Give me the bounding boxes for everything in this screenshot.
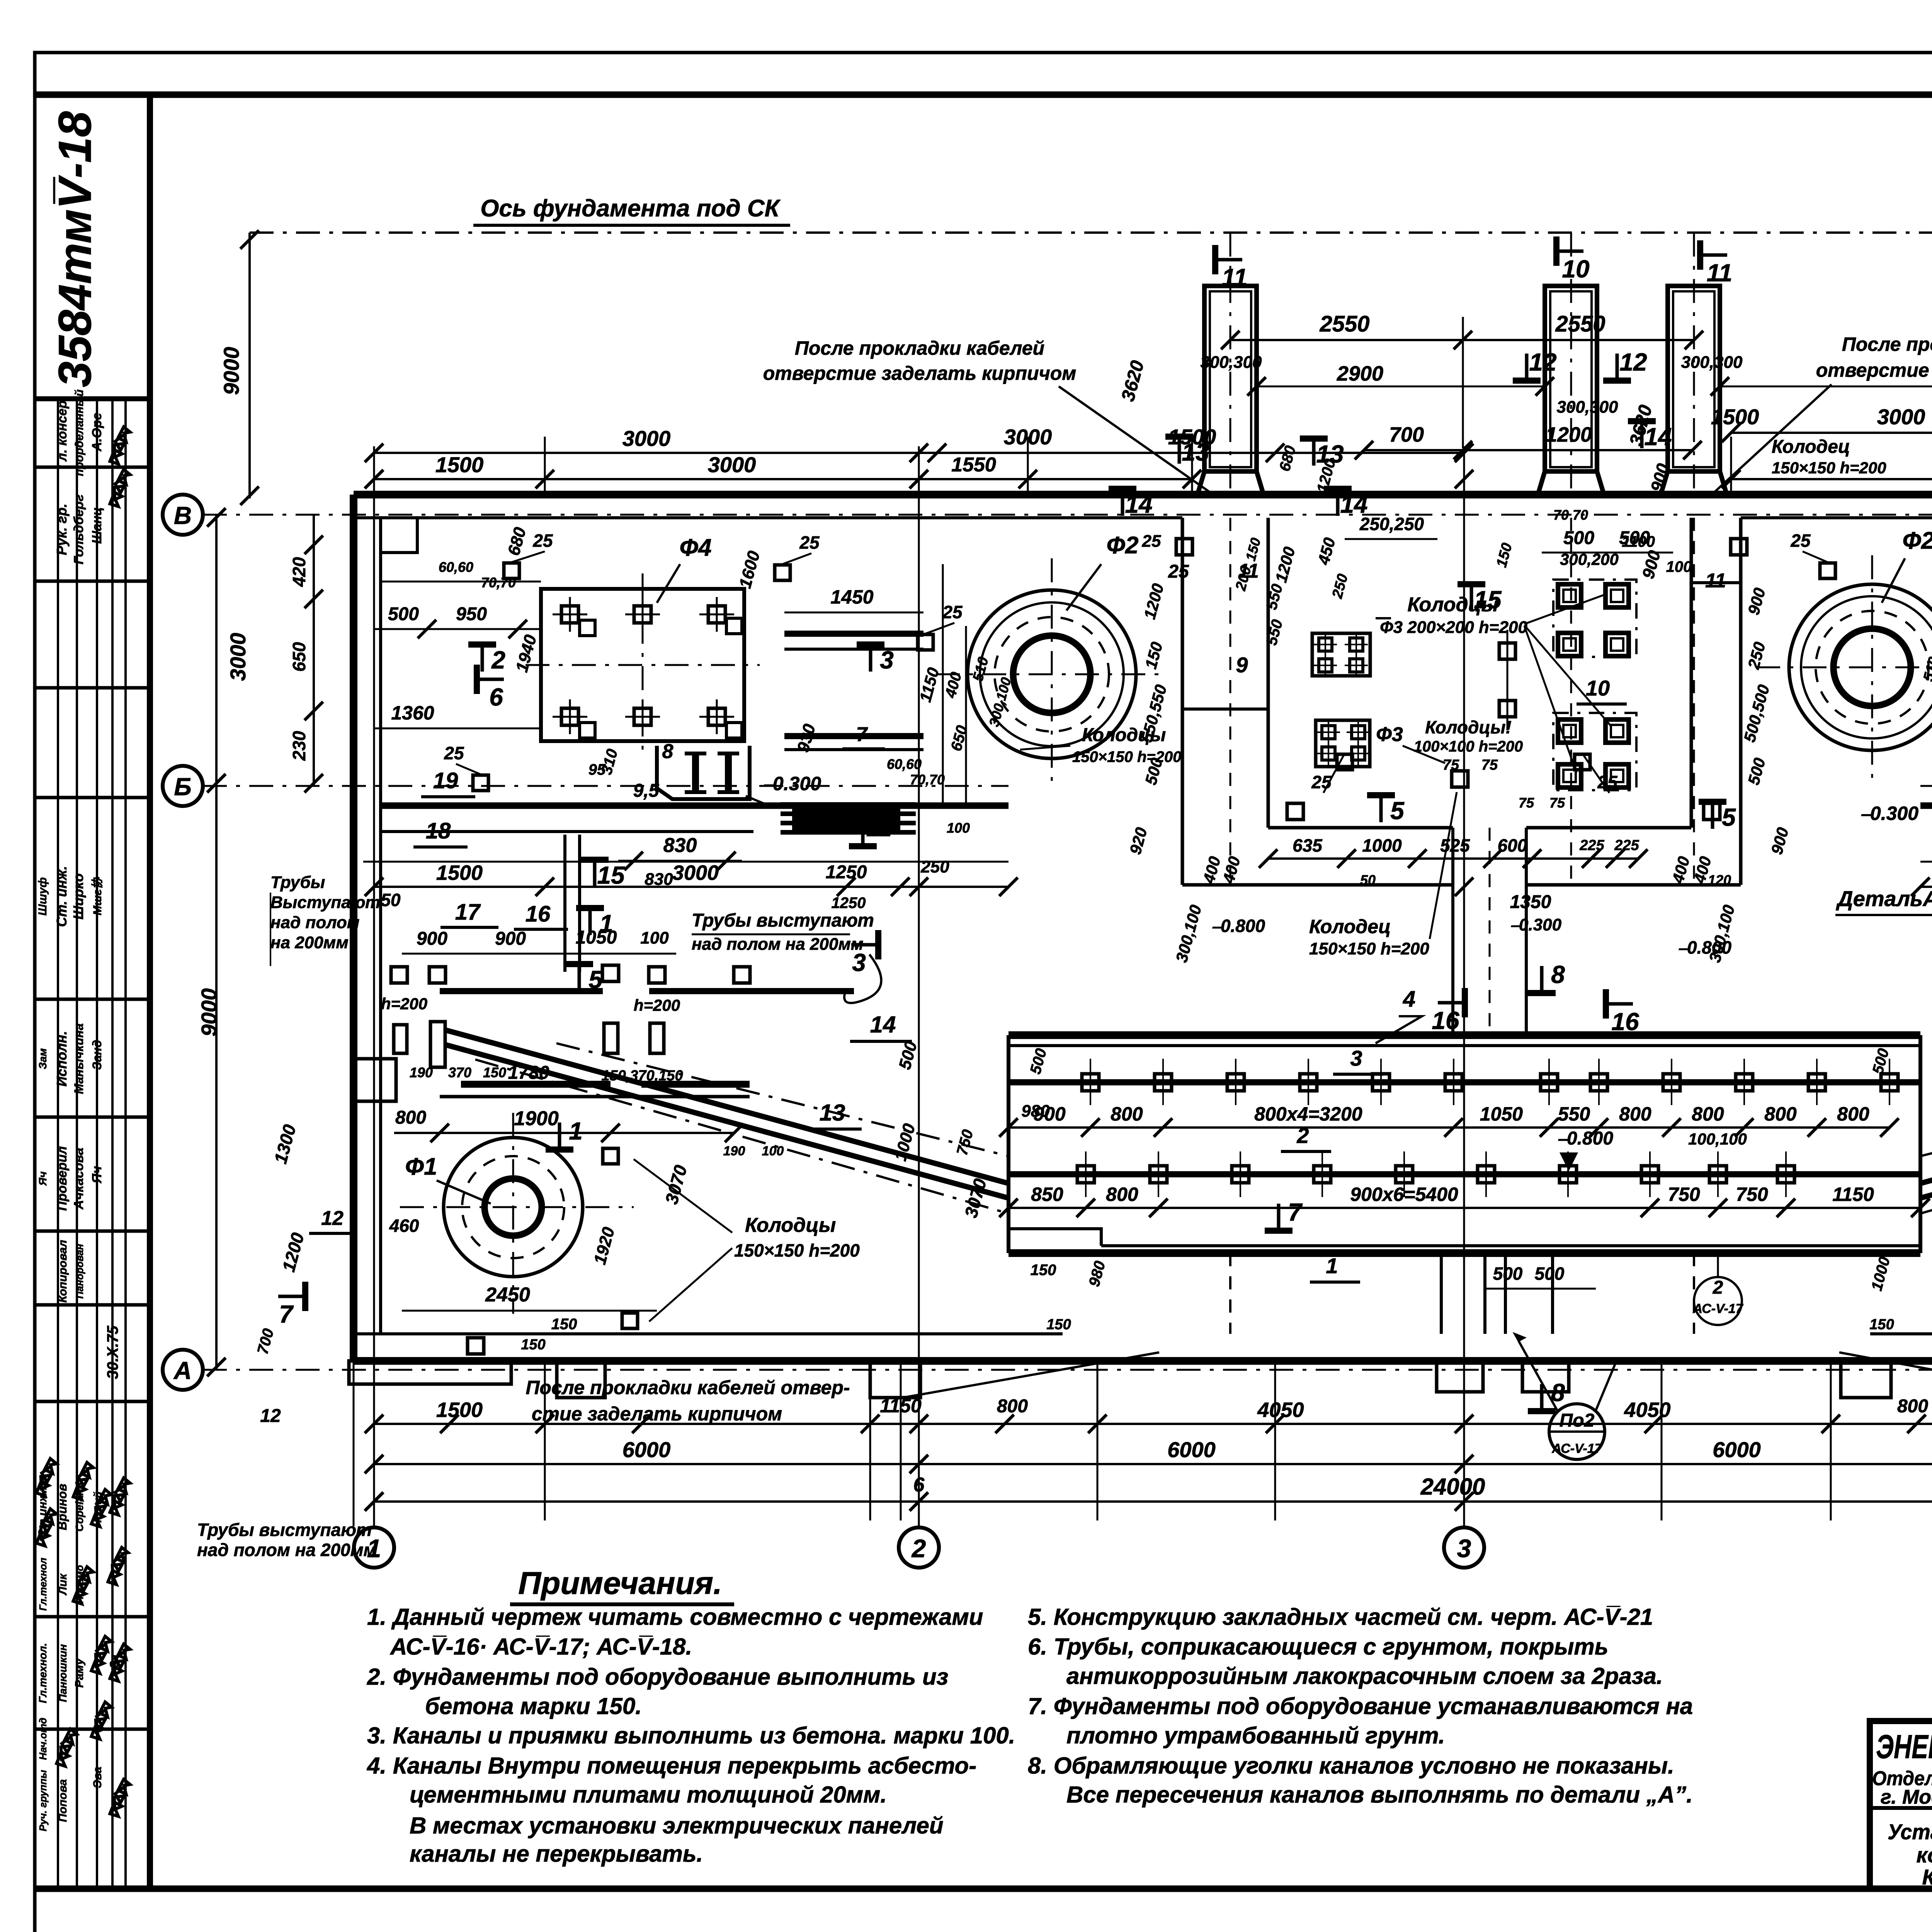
svg-text:6. Трубы, соприкасающиеся с г: 6. Трубы, соприкасающиеся с грунтом, пок…	[1028, 1634, 1608, 1660]
svg-text:АС-V̅-16· АС-V̅-17; АС-V̅-18.: АС-V̅-16· АС-V̅-17; АС-V̅-18.	[389, 1634, 692, 1660]
svg-text:1050: 1050	[1480, 1103, 1523, 1125]
wall corner notches	[381, 518, 417, 553]
svg-text:8: 8	[662, 740, 673, 763]
band bottom lines	[1101, 1244, 1920, 1247]
svg-text:Юрий: Юрий	[92, 1492, 104, 1523]
svg-text:3000: 3000	[672, 861, 719, 884]
svg-text:9: 9	[1236, 653, 1248, 677]
svg-text:460: 460	[389, 1216, 419, 1236]
svg-text:2: 2	[1296, 1123, 1309, 1148]
svg-text:250: 250	[920, 857, 949, 876]
svg-text:1500: 1500	[436, 861, 483, 884]
svg-text:3000: 3000	[708, 452, 756, 477]
svg-text:50: 50	[381, 890, 401, 910]
svg-text:150×150 h=200: 150×150 h=200	[1772, 459, 1886, 477]
svg-text:550: 550	[1558, 1103, 1590, 1125]
svg-text:25: 25	[1790, 531, 1811, 551]
svg-text:900: 900	[417, 929, 447, 949]
svg-text:12: 12	[1619, 348, 1647, 376]
svg-text:⎯0.300: ⎯0.300	[1861, 803, 1918, 824]
svg-text:800: 800	[1692, 1103, 1724, 1125]
svg-text:После прокладки кабелей: После прокладки кабелей	[795, 337, 1044, 359]
svg-text:800: 800	[997, 1396, 1028, 1417]
svg-text:3000: 3000	[622, 426, 671, 451]
svg-text:2550: 2550	[1555, 311, 1605, 337]
svg-text:300,200: 300,200	[1560, 550, 1619, 568]
band bolt row 2	[1009, 1171, 1920, 1177]
svg-text:500: 500	[388, 604, 419, 624]
svg-text:12: 12	[321, 1207, 344, 1230]
svg-text:АС-V-17: АС-V-17	[1692, 1301, 1743, 1316]
svg-text:500: 500	[1563, 528, 1594, 548]
svg-text:1250: 1250	[826, 862, 867, 883]
central pit walls	[1181, 518, 1184, 885]
svg-text:3000: 3000	[226, 633, 250, 681]
svg-text:150: 150	[1046, 1316, 1071, 1333]
bottom wall footing pads	[349, 1361, 511, 1384]
svg-text:стие заделать кирпичом: стие заделать кирпичом	[532, 1403, 782, 1425]
svg-text:цементными плитами толщиной: цементными плитами толщиной 20мм.	[410, 1782, 887, 1808]
svg-text:Выступают: Выступают	[270, 893, 380, 912]
svg-text:14: 14	[1125, 490, 1152, 518]
svg-text:на 200мм: на 200мм	[270, 933, 349, 952]
svg-text:5. Конструкцию закладных час: 5. Конструкцию закладных частей см. черт…	[1028, 1604, 1653, 1630]
svg-text:250,250: 250,250	[1359, 514, 1424, 534]
svg-text:Эва: Эва	[91, 1767, 104, 1788]
svg-text:11: 11	[1705, 570, 1726, 592]
svg-text:1: 1	[599, 910, 613, 937]
central channel band	[1009, 1031, 1920, 1039]
wing mid dim rows left	[374, 886, 1009, 888]
trench wells row left	[391, 967, 407, 983]
svg-text:Исполн.: Исполн.	[54, 1031, 70, 1087]
svg-text:над полом на 200мм: над полом на 200мм	[692, 935, 863, 954]
top dimension row 2	[374, 478, 1192, 480]
stamp rows	[35, 466, 150, 469]
svg-text:25: 25	[799, 532, 820, 553]
svg-text:5: 5	[1722, 803, 1736, 831]
svg-text:Ширко: Ширко	[70, 873, 86, 919]
svg-text:7. Фундаменты под оборудован: 7. Фундаменты под оборудование устанавли…	[1028, 1693, 1693, 1719]
bench detail left with I-beams	[657, 746, 750, 799]
svg-text:25: 25	[532, 531, 553, 551]
svg-text:800: 800	[1764, 1103, 1797, 1125]
svg-text:Гл.технол.: Гл.технол.	[37, 1643, 49, 1703]
tower axis dash-dot lines	[1230, 233, 1231, 498]
foundation circle F2 left	[968, 590, 1136, 759]
svg-text:над полом: над полом	[270, 913, 359, 932]
svg-text:120: 120	[1708, 872, 1731, 888]
svg-text:7: 7	[1288, 1198, 1303, 1226]
svg-text:420: 420	[289, 557, 309, 587]
svg-text:100,100: 100,100	[1688, 1130, 1747, 1148]
svg-text:25: 25	[1168, 561, 1189, 582]
markers around wings	[581, 857, 609, 863]
svg-text:1500: 1500	[435, 452, 484, 477]
svg-text:13: 13	[820, 1100, 845, 1126]
extra wing horizontal dim lines left	[381, 581, 541, 583]
svg-text:А: А	[173, 1357, 192, 1384]
svg-text:Ф2: Ф2	[1107, 532, 1139, 559]
svg-text:h=200: h=200	[634, 996, 680, 1014]
svg-text:1000: 1000	[1362, 835, 1402, 855]
svg-text:70,70: 70,70	[910, 772, 945, 787]
svg-text:3: 3	[1457, 1534, 1471, 1563]
band dim row 1	[1009, 1126, 1889, 1129]
svg-text:850: 850	[1031, 1184, 1063, 1205]
svg-text:900х6=5400: 900х6=5400	[1350, 1184, 1458, 1205]
svg-text:ДетальА”: ДетальА”	[1836, 886, 1932, 911]
svg-text:После прокладки кабелей отв: После прокладки кабелей отвер-	[526, 1377, 850, 1398]
svg-text:150×150 h=200: 150×150 h=200	[734, 1240, 860, 1260]
svg-text:800: 800	[1106, 1184, 1138, 1205]
svg-text:г. Москва: г. Москва	[1881, 1786, 1932, 1808]
svg-text:Панюшкин: Панюшкин	[57, 1644, 69, 1702]
svg-text:Шшуф: Шшуф	[36, 877, 49, 915]
svg-text:1: 1	[1326, 1253, 1338, 1278]
svg-text:60,60: 60,60	[439, 559, 473, 575]
hatch strip left	[781, 802, 916, 807]
svg-text:19: 19	[433, 768, 458, 793]
cluster group squares left2	[1316, 720, 1370, 767]
building outer walls	[354, 491, 1932, 498]
trench pipes left	[394, 1025, 407, 1053]
small ticks on axis verticals	[365, 470, 383, 488]
svg-text:150: 150	[521, 1337, 545, 1353]
svg-text:⎯0.800: ⎯0.800	[1212, 916, 1265, 936]
svg-text:950: 950	[456, 604, 487, 624]
svg-text:11: 11	[1222, 264, 1247, 291]
cluster dim row	[1268, 857, 1638, 860]
svg-text:500: 500	[1535, 1264, 1565, 1284]
svg-text:1500: 1500	[1711, 405, 1759, 429]
svg-text:Ф4: Ф4	[680, 534, 712, 561]
cluster right squares	[1558, 584, 1581, 607]
row axis circles	[163, 495, 203, 535]
25 squares and labels	[504, 563, 519, 578]
left inner dim chain	[313, 515, 315, 786]
svg-text:4. Каналы Внутри помещения: 4. Каналы Внутри помещения перекрыть асб…	[367, 1753, 976, 1779]
markers under pit	[1462, 988, 1468, 1017]
inner frame top line	[35, 92, 1932, 98]
dim 2550 2550 between towers	[1230, 339, 1694, 341]
dashed verticals below band	[1229, 1253, 1231, 1334]
svg-text:70: 70	[1573, 507, 1588, 523]
foundation circle F2 right	[1789, 584, 1932, 750]
svg-text:60,60: 60,60	[887, 756, 922, 772]
svg-text:h=200: h=200	[381, 995, 427, 1013]
svg-text:Ф1: Ф1	[405, 1153, 437, 1180]
svg-text:11: 11	[1238, 560, 1259, 582]
svg-text:отверстие заделать кирпичом: отверстие заделать кирпичом	[763, 362, 1077, 384]
left wing vertical chain lines	[942, 564, 944, 629]
svg-text:24000: 24000	[1420, 1474, 1485, 1500]
svg-text:плотно утрамбованный грунт.: плотно утрамбованный грунт.	[1066, 1723, 1445, 1748]
svg-text:Трубы выступают: Трубы выступают	[197, 1520, 372, 1540]
left top vertical dim line	[248, 233, 251, 498]
stamp big box line	[35, 396, 150, 401]
svg-text:Ф3: Ф3	[1376, 723, 1403, 746]
svg-text:2550: 2550	[1319, 311, 1369, 337]
svg-text:1250: 1250	[832, 895, 866, 912]
dim 2900 lines	[1257, 386, 1545, 388]
svg-text:800: 800	[1897, 1396, 1928, 1417]
svg-text:150: 150	[1869, 1316, 1894, 1333]
svg-text:750: 750	[1736, 1184, 1768, 1205]
extra ticks bottom walls	[440, 1415, 459, 1433]
svg-text:9000: 9000	[197, 988, 221, 1037]
pit to band connecting channel	[1451, 828, 1454, 1035]
band bolt row 1	[1009, 1079, 1920, 1085]
svg-text:каналы не перекрывать.: каналы не перекрывать.	[410, 1841, 703, 1867]
svg-text:2450: 2450	[485, 1284, 530, 1306]
svg-text:190: 190	[410, 1065, 433, 1080]
svg-text:Ф3 200×200 h=200: Ф3 200×200 h=200	[1380, 618, 1527, 637]
svg-text:2: 2	[911, 1534, 926, 1563]
svg-text:6000: 6000	[1713, 1437, 1761, 1462]
svg-text:1550: 1550	[951, 454, 996, 476]
svg-text:3: 3	[1350, 1046, 1362, 1070]
svg-text:25: 25	[942, 602, 963, 622]
svg-text:Гл. консер.: Гл. консер.	[55, 397, 70, 469]
svg-text:бетона марки 150.: бетона марки 150.	[425, 1693, 642, 1719]
svg-text:Колодец: Колодец	[1772, 437, 1850, 457]
svg-text:16: 16	[526, 901, 551, 927]
wing bottom wall right with hatch	[1920, 803, 1932, 809]
svg-text:9,5: 9,5	[633, 781, 660, 801]
svg-text:Б: Б	[174, 773, 191, 801]
diagonal channels right	[1921, 1030, 1932, 1183]
svg-text:12: 12	[260, 1406, 281, 1426]
svg-text:100×100 h=200: 100×100 h=200	[1414, 738, 1523, 755]
wells near B row center	[1287, 803, 1303, 820]
left wall	[350, 495, 357, 1361]
wing mid dim rows right	[1920, 886, 1932, 888]
svg-text:2: 2	[491, 646, 505, 674]
svg-text:ЭНЕРГОСЕТЬПРОЕКТ: ЭНЕРГОСЕТЬПРОЕКТ	[1876, 1728, 1932, 1765]
band dim row 2	[1009, 1207, 1920, 1209]
svg-text:8: 8	[1551, 961, 1565, 988]
svg-text:11: 11	[866, 814, 892, 842]
svg-text:150×150 h=200: 150×150 h=200	[1309, 939, 1429, 958]
svg-text:800: 800	[1619, 1103, 1651, 1125]
svg-text:Мшг协: Мшг协	[91, 877, 104, 915]
svg-text:15: 15	[597, 861, 625, 889]
svg-text:Нач.отд: Нач.отд	[37, 1718, 49, 1760]
stamp inner verticals	[57, 399, 59, 1887]
stamp column	[147, 95, 153, 1889]
svg-text:Колодец: Колодец	[1309, 916, 1391, 937]
svg-text:830: 830	[645, 870, 673, 889]
svg-text:В: В	[174, 502, 192, 529]
svg-text:225: 225	[1614, 837, 1639, 854]
svg-text:4: 4	[1403, 986, 1415, 1012]
svg-text:Манычкина: Манычкина	[72, 1023, 86, 1094]
cluster middle wells	[1499, 643, 1515, 659]
svg-text:Колодцы: Колодцы	[745, 1214, 836, 1236]
svg-text:6: 6	[913, 1474, 925, 1496]
column axis circles 1-5	[354, 1527, 394, 1568]
svg-text:Яч: Яч	[37, 1172, 49, 1186]
wing vertical chains	[942, 564, 944, 806]
svg-text:100: 100	[640, 929, 669, 947]
svg-text:1100: 1100	[1622, 533, 1655, 550]
svg-text:1360: 1360	[391, 702, 434, 724]
svg-text:1150: 1150	[1832, 1184, 1874, 1205]
svg-text:1500: 1500	[436, 1398, 483, 1422]
svg-text:800: 800	[1111, 1103, 1143, 1125]
svg-text:Примечания.: Примечания.	[518, 1566, 722, 1601]
tower markers 12 13 14	[1513, 378, 1541, 384]
svg-text:4050: 4050	[1624, 1398, 1670, 1422]
svg-text:25: 25	[1142, 532, 1161, 551]
svg-text:70,70: 70,70	[481, 575, 516, 590]
diagonal channels left	[444, 1030, 1008, 1183]
svg-text:Зам: Зам	[37, 1048, 49, 1070]
svg-text:700: 700	[1389, 423, 1424, 446]
svg-text:100: 100	[762, 1144, 784, 1158]
svg-text:150: 150	[551, 1316, 577, 1333]
svg-text:3584тмV̅-18: 3584тмV̅-18	[49, 111, 101, 388]
svg-text:Ось фундамента под СК: Ось фундамента под СК	[480, 195, 781, 222]
svg-text:Трубы: Трубы	[270, 873, 325, 892]
svg-text:1200: 1200	[1546, 423, 1592, 446]
svg-text:Трубы выступают: Трубы выступают	[692, 910, 874, 931]
svg-text:Лик: Лик	[56, 1573, 69, 1595]
svg-text:А.Оре: А.Оре	[90, 413, 104, 452]
svg-text:15: 15	[1474, 586, 1502, 614]
svg-text:70: 70	[1553, 507, 1569, 523]
svg-text:Ст. инж.: Ст. инж.	[54, 866, 70, 927]
svg-text:75: 75	[1549, 795, 1565, 811]
title block	[1870, 1721, 1932, 1889]
svg-text:8: 8	[1551, 1379, 1565, 1406]
svg-text:8. Обрамляющие уголки канало: 8. Обрамляющие уголки каналов условно не…	[1028, 1753, 1674, 1779]
top extension verticals	[544, 437, 546, 495]
svg-text:17: 17	[455, 900, 481, 925]
svg-text:800х4=3200: 800х4=3200	[1254, 1103, 1362, 1125]
svg-text:75: 75	[1481, 757, 1498, 773]
svg-text:18: 18	[426, 818, 451, 844]
svg-text:Руч. группы: Руч. группы	[37, 1770, 49, 1832]
svg-text:Ф2: Ф2	[1903, 527, 1932, 554]
svg-text:Вринов: Вринов	[55, 1484, 69, 1530]
svg-text:Яч: Яч	[90, 1166, 104, 1184]
row axis dash-dot lines	[203, 514, 1932, 516]
svg-text:Установка синхронных: Установка синхронных	[1888, 1820, 1932, 1844]
svg-text:3000: 3000	[1877, 405, 1925, 429]
bottom dim row 24000	[374, 1500, 1932, 1503]
svg-text:Шанц: Шанц	[90, 507, 104, 544]
svg-text:100: 100	[947, 820, 970, 836]
svg-text:По2: По2	[1560, 1410, 1595, 1431]
svg-text:⎯0.300: ⎯0.300	[763, 773, 821, 794]
stamp signatures scribbles	[108, 426, 131, 464]
svg-text:Занд: Занд	[90, 1040, 104, 1070]
svg-text:75: 75	[1519, 795, 1534, 811]
svg-text:АС-V-17: АС-V-17	[1551, 1441, 1602, 1456]
svg-text:370: 370	[448, 1065, 471, 1080]
svg-text:1450: 1450	[830, 586, 873, 608]
bottom wall	[354, 1357, 1932, 1365]
svg-text:30.X.75: 30.X.75	[104, 1325, 121, 1379]
svg-text:КСВБ-50-11У1: КСВБ-50-11У1	[1922, 1865, 1932, 1889]
foundation circle F1 left	[444, 1138, 583, 1277]
svg-text:2: 2	[1713, 1277, 1723, 1298]
svg-text:Гольдберг: Гольдберг	[71, 494, 86, 564]
dim 700 1200 center	[1364, 449, 1692, 451]
svg-text:Проверил: Проверил	[55, 1146, 70, 1211]
svg-text:75: 75	[1443, 757, 1459, 773]
svg-text:100: 100	[1666, 558, 1692, 575]
svg-text:16: 16	[1432, 1007, 1459, 1034]
cluster group squares left1	[1312, 633, 1370, 676]
svg-text:10: 10	[1586, 676, 1610, 700]
svg-text:2. Фундаменты под оборудован: 2. Фундаменты под оборудование выполнить…	[367, 1664, 948, 1690]
svg-text:300,300: 300,300	[1556, 398, 1618, 417]
svg-text:635: 635	[1293, 835, 1323, 855]
svg-text:Копировал: Копировал	[56, 1240, 69, 1303]
svg-text:Ачкасова: Ачкасова	[71, 1148, 86, 1210]
svg-text:Рук. гр.: Рук. гр.	[54, 503, 70, 555]
svg-text:300,300: 300,300	[1681, 353, 1743, 372]
svg-text:980: 980	[1021, 1102, 1050, 1121]
pad F4 left anchor bolts	[561, 606, 578, 623]
svg-text:95: 95	[588, 761, 606, 778]
bottom dim row A	[374, 1423, 1932, 1425]
svg-text:отверстие заделать кирпичом: отверстие заделать кирпичом	[1816, 359, 1932, 381]
svg-text:антикоррозийным лакокрасочным: антикоррозийным лакокрасочным слоем за 2…	[1066, 1663, 1663, 1689]
svg-text:150: 150	[483, 1065, 506, 1080]
svg-text:230: 230	[289, 731, 309, 761]
trench channel bars left	[461, 1081, 611, 1088]
svg-text:1350: 1350	[1510, 892, 1551, 912]
tower double walls	[1210, 291, 1251, 467]
svg-text:190: 190	[723, 1144, 745, 1158]
svg-text:50: 50	[1360, 872, 1376, 888]
svg-text:Гл.технол: Гл.технол	[37, 1558, 49, 1611]
svg-text:1900: 1900	[514, 1107, 559, 1130]
svg-text:25: 25	[444, 743, 464, 763]
svg-text:компенсаторов: компенсаторов	[1917, 1843, 1932, 1867]
svg-text:800: 800	[395, 1107, 426, 1128]
bottom dim row 6000s	[374, 1463, 1932, 1465]
cable towers at top	[1204, 286, 1257, 471]
cluster leader fan	[1524, 595, 1604, 624]
svg-text:12: 12	[1529, 348, 1556, 376]
svg-text:6000: 6000	[622, 1437, 671, 1462]
svg-text:800: 800	[1837, 1103, 1869, 1125]
svg-text:650: 650	[289, 642, 309, 672]
svg-text:прорделанный: прорделанный	[73, 389, 86, 476]
svg-text:9000: 9000	[219, 347, 243, 395]
wing bottom wall left with hatch	[381, 803, 1009, 809]
tower top markers	[1212, 245, 1218, 274]
svg-text:10: 10	[1562, 255, 1589, 283]
svg-text:7: 7	[279, 1300, 294, 1328]
svg-text:Попова: Попова	[56, 1779, 69, 1822]
svg-text:6000: 6000	[1167, 1437, 1216, 1462]
equipment pad F4 left	[541, 589, 744, 741]
svg-text:За: За	[108, 1655, 121, 1668]
band inner verticals	[1440, 1253, 1443, 1334]
svg-text:830: 830	[663, 834, 697, 857]
svg-text:над полом на 200мм: над полом на 200мм	[197, 1540, 377, 1560]
svg-text:Раму: Раму	[73, 1658, 86, 1688]
svg-text:2900: 2900	[1337, 362, 1383, 385]
extra pit interior lines	[1182, 707, 1268, 711]
svg-text:⎯0.800: ⎯0.800	[1558, 1128, 1613, 1149]
